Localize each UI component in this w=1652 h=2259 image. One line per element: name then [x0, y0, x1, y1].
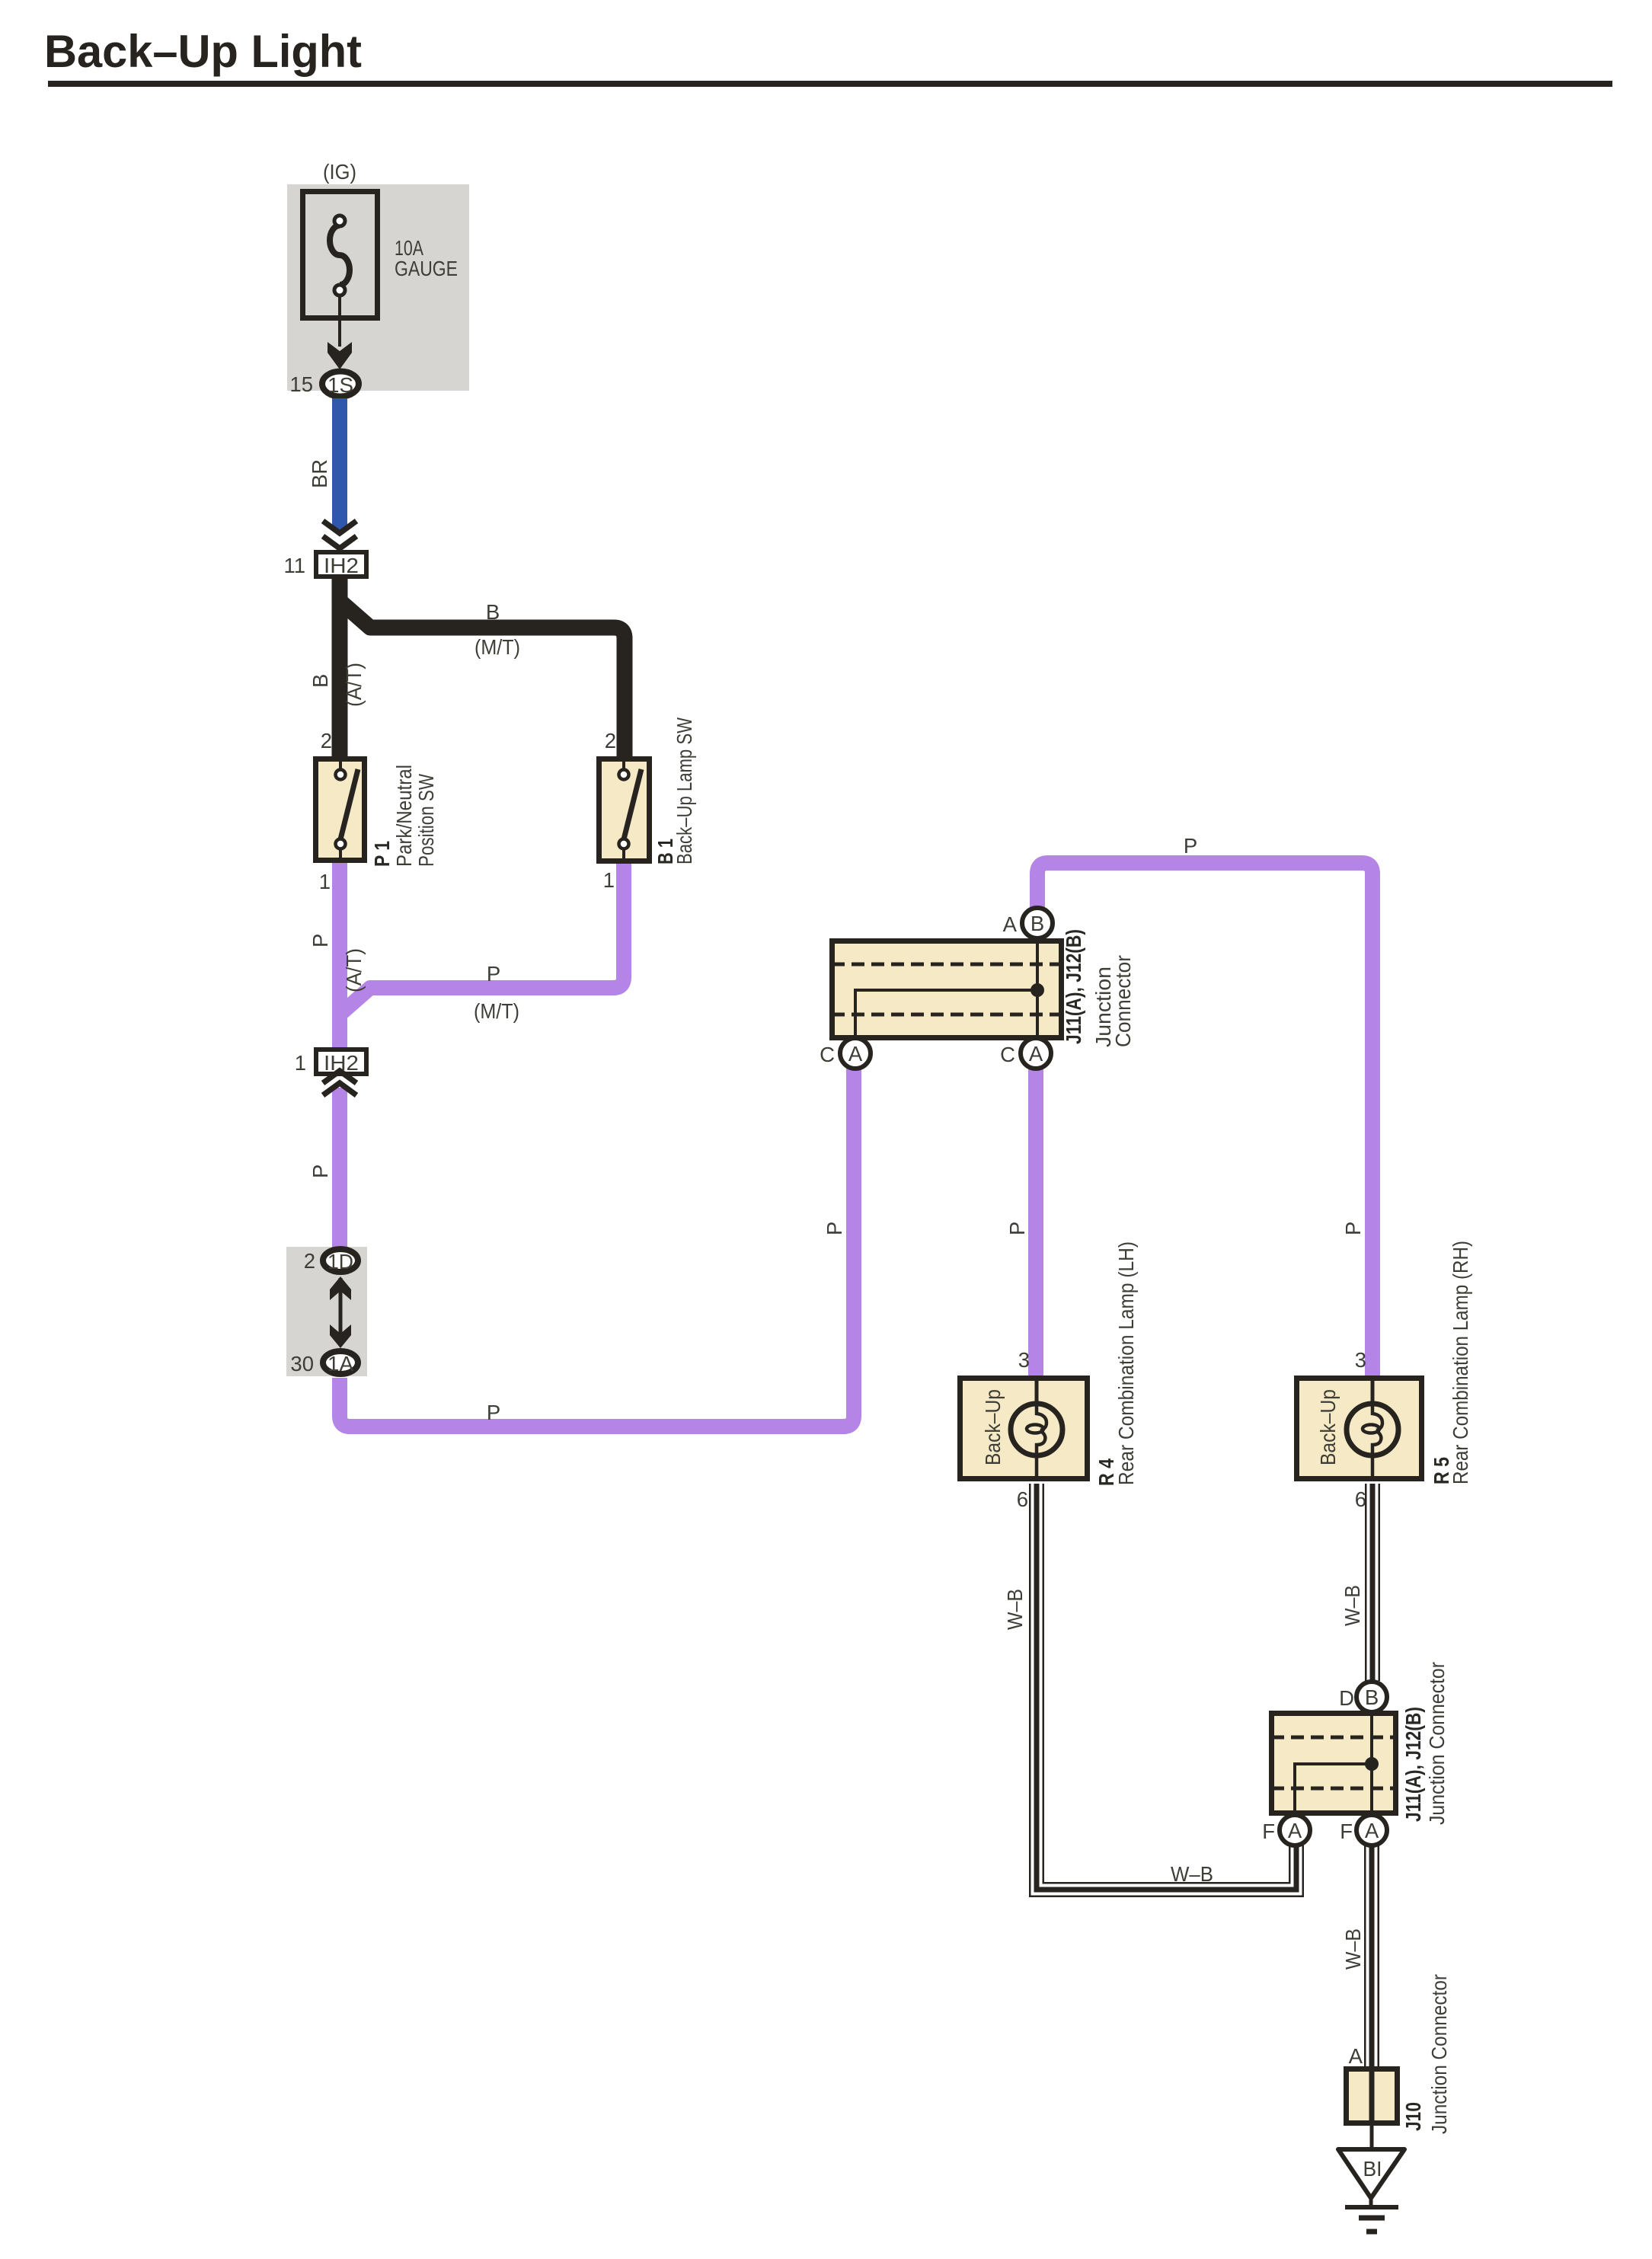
svg-text:B: B — [1365, 1685, 1379, 1709]
svg-text:A: A — [1349, 2044, 1363, 2068]
svg-text:2: 2 — [605, 729, 616, 752]
svg-text:Junction Connector: Junction Connector — [1427, 1974, 1451, 2134]
svg-text:1S: 1S — [328, 373, 353, 397]
svg-text:B: B — [1031, 912, 1044, 935]
svg-text:(A/T): (A/T) — [342, 948, 366, 992]
svg-text:P: P — [487, 1401, 500, 1424]
svg-text:W–B: W–B — [1003, 1589, 1027, 1630]
svg-text:F: F — [1340, 1820, 1353, 1843]
svg-text:Back–Up: Back–Up — [981, 1389, 1005, 1465]
svg-text:Back–Up Light: Back–Up Light — [44, 26, 362, 77]
svg-text:P: P — [1184, 834, 1197, 858]
svg-text:1: 1 — [603, 868, 615, 892]
svg-text:Back–Up Lamp SW: Back–Up Lamp SW — [673, 717, 696, 864]
svg-text:30: 30 — [290, 1352, 314, 1376]
svg-text:P: P — [487, 962, 500, 986]
svg-text:A: A — [1365, 1819, 1379, 1842]
svg-text:(M/T): (M/T) — [475, 635, 520, 659]
svg-text:J11(A), J12(B): J11(A), J12(B) — [1062, 929, 1085, 1044]
svg-text:Position SW: Position SW — [414, 774, 438, 867]
svg-text:15: 15 — [289, 372, 313, 396]
svg-text:A: A — [1029, 1042, 1043, 1066]
svg-text:6: 6 — [1017, 1487, 1028, 1511]
svg-text:3: 3 — [1018, 1348, 1030, 1372]
svg-text:2: 2 — [304, 1249, 315, 1273]
svg-text:6: 6 — [1355, 1487, 1366, 1511]
svg-text:1: 1 — [319, 870, 331, 893]
svg-text:P: P — [308, 1165, 332, 1178]
svg-text:11: 11 — [283, 554, 305, 577]
svg-text:B: B — [308, 674, 332, 688]
svg-text:C: C — [820, 1043, 835, 1066]
svg-text:P: P — [308, 934, 332, 947]
svg-text:P 1: P 1 — [370, 841, 394, 867]
svg-text:(M/T): (M/T) — [474, 999, 519, 1023]
svg-text:B: B — [486, 600, 500, 624]
svg-text:A: A — [848, 1042, 863, 1066]
svg-text:D: D — [1339, 1686, 1354, 1710]
svg-text:Rear Combination Lamp (RH): Rear Combination Lamp (RH) — [1449, 1241, 1472, 1484]
svg-text:BI: BI — [1363, 2157, 1382, 2181]
svg-text:W–B: W–B — [1341, 1928, 1365, 1970]
svg-text:F: F — [1262, 1820, 1275, 1843]
svg-text:A: A — [1003, 912, 1018, 936]
svg-text:J11(A), J12(B): J11(A), J12(B) — [1401, 1707, 1425, 1822]
svg-text:C: C — [1000, 1043, 1015, 1066]
svg-text:J10: J10 — [1401, 2102, 1425, 2131]
svg-text:1A: 1A — [328, 1352, 354, 1376]
svg-text:P: P — [823, 1222, 846, 1235]
svg-text:1D: 1D — [328, 1250, 353, 1273]
svg-text:Connector: Connector — [1111, 955, 1135, 1047]
svg-text:(IG): (IG) — [323, 160, 356, 184]
svg-text:IH2: IH2 — [324, 554, 359, 577]
svg-text:Park/Neutral: Park/Neutral — [392, 765, 416, 867]
svg-text:3: 3 — [1355, 1348, 1366, 1372]
svg-text:W–B: W–B — [1171, 1862, 1213, 1886]
svg-text:2: 2 — [321, 729, 332, 752]
svg-text:A: A — [1288, 1819, 1302, 1842]
svg-text:Rear Combination Lamp (LH): Rear Combination Lamp (LH) — [1114, 1241, 1138, 1485]
svg-text:1: 1 — [295, 1051, 306, 1075]
svg-text:Junction Connector: Junction Connector — [1425, 1662, 1449, 1825]
svg-text:P: P — [1341, 1222, 1365, 1235]
svg-text:(A/T): (A/T) — [342, 663, 366, 707]
svg-text:BR: BR — [308, 459, 331, 488]
svg-text:GAUGE: GAUGE — [395, 257, 458, 280]
svg-text:Back–Up: Back–Up — [1316, 1389, 1340, 1465]
svg-text:W–B: W–B — [1340, 1585, 1364, 1626]
svg-text:P: P — [1005, 1222, 1029, 1235]
